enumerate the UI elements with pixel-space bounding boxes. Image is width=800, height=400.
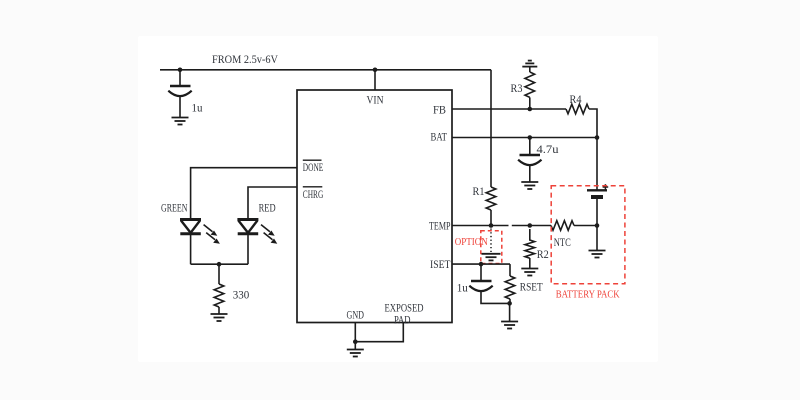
wire FB net [452, 108, 566, 110]
ground below battery [589, 251, 606, 258]
wire R5 to ground [218, 307, 220, 314]
wire C2 to ground [529, 166, 531, 183]
svg-text:ISET: ISET [430, 257, 451, 271]
junction NTC/battery [595, 223, 600, 228]
resistor R1 [486, 187, 496, 210]
wire EXPOSED PAD pin [355, 323, 403, 342]
junction GND/EXPOSED PAD [353, 339, 358, 344]
junction TEMP/R2 [528, 223, 533, 228]
svg-text:DONE: DONE [303, 160, 324, 174]
battery BT1 [587, 184, 608, 197]
svg-text:GREEN: GREEN [161, 201, 188, 215]
capacitor C2 [518, 155, 541, 165]
wire ISET net [452, 263, 510, 265]
wire RSET bottom [509, 299, 511, 303]
ground below RSET [501, 322, 518, 329]
svg-text:1u: 1u [457, 281, 468, 295]
junction at VIN pin [373, 68, 378, 73]
wire BAT net [452, 137, 597, 139]
junction BAT/C2 [528, 135, 533, 140]
wire LED common to R5 [218, 264, 220, 284]
wire battery node to ground [596, 226, 598, 251]
svg-text:CHRG: CHRG [303, 187, 324, 201]
wire NTC to battery node [574, 225, 597, 227]
wire R3 to FB [529, 97, 531, 109]
svg-text:RSET: RSET [520, 280, 544, 294]
svg-text:FB: FB [433, 102, 446, 116]
resistor RSET [505, 276, 515, 299]
junction RSET/C3 [507, 301, 512, 306]
svg-text:BATTERY PACK: BATTERY PACK [556, 290, 620, 301]
svg-text:R4: R4 [570, 92, 582, 106]
IC U1 body [297, 90, 452, 323]
capacitor C1 [168, 86, 191, 96]
wire VIN pin [374, 70, 376, 90]
wire C3 bottom [481, 292, 510, 304]
wire battery to NTC node [596, 199, 598, 226]
wire TEMP net (dashed continuation) [512, 225, 551, 227]
resistor R4 [566, 104, 589, 114]
svg-text:TEMP: TEMP [429, 218, 451, 232]
wire R2 to ground [529, 258, 531, 269]
resistor R5 330 [214, 284, 224, 307]
LED D2 RED [237, 220, 277, 244]
junction ISET/C3 [479, 262, 484, 267]
resistor R3 [525, 72, 535, 97]
OPTION box (red dashed) [481, 231, 502, 264]
resistor NTC [551, 221, 574, 231]
BATTERY PACK box (red dashed) [551, 186, 625, 284]
resistor R2 [525, 229, 535, 258]
junction BAT/battery [595, 135, 600, 140]
wire C1 to ground [179, 97, 181, 118]
wire R4 to BAT node [589, 109, 597, 138]
wire RSET top [509, 264, 511, 276]
svg-text:4.7u: 4.7u [537, 142, 559, 156]
wire VIN rail drop to R1 [490, 70, 492, 187]
junction FB/R3 [528, 107, 533, 112]
ground below R2 [521, 269, 538, 276]
optional ground symbol [482, 254, 501, 261]
svg-text:PAD: PAD [394, 312, 411, 326]
wire TEMP net (left solid part) [452, 225, 509, 227]
svg-text:RED: RED [259, 201, 276, 215]
svg-text:VIN: VIN [367, 92, 384, 106]
wire battery top [596, 138, 598, 191]
capacitor C3 [469, 281, 492, 291]
svg-text:FROM 2.5v-6V: FROM 2.5v-6V [212, 52, 278, 66]
svg-text:OPTION: OPTION [455, 237, 488, 248]
wire D2 cathode [247, 235, 249, 264]
svg-text:1u: 1u [192, 101, 203, 115]
pin label EXPOSED PAD [385, 301, 424, 327]
LED D1 GREEN [180, 220, 220, 244]
wire R1 to TEMP [490, 210, 492, 226]
svg-text:R1: R1 [473, 184, 485, 198]
ground below C2 [521, 182, 538, 189]
pin label CHRG (with overline) [303, 187, 324, 201]
junction at C1 [178, 68, 183, 73]
wire LED common [191, 263, 248, 265]
svg-text:BAT: BAT [431, 130, 448, 144]
wire R3 top [529, 67, 531, 72]
optional ground dotted wire [490, 229, 492, 253]
wire C1 top [179, 70, 181, 86]
wire VIN rail [160, 69, 491, 71]
wire GND node to ground [354, 342, 356, 350]
wire GND pin [354, 323, 356, 342]
ground below C1 [172, 118, 189, 125]
wire C2 top [529, 138, 531, 155]
svg-text:R3: R3 [511, 81, 523, 95]
wire DONE net [191, 168, 297, 219]
wire CHRG net [248, 187, 297, 219]
wire D1 cathode [190, 235, 192, 264]
ground below GND pin [347, 350, 364, 357]
svg-text:R2: R2 [537, 247, 549, 261]
svg-text:GND: GND [347, 308, 365, 322]
ground below R5 [211, 314, 228, 321]
junction LED common [217, 262, 222, 267]
wire RSET node to ground [509, 303, 511, 321]
power symbol above R3 (inverted ground) [522, 61, 537, 67]
junction TEMP/R1 [489, 223, 494, 228]
svg-text:330: 330 [233, 288, 250, 302]
pin label DONE (with overline) [303, 160, 324, 174]
wire C3 top [480, 264, 482, 280]
svg-text:NTC: NTC [554, 235, 571, 249]
